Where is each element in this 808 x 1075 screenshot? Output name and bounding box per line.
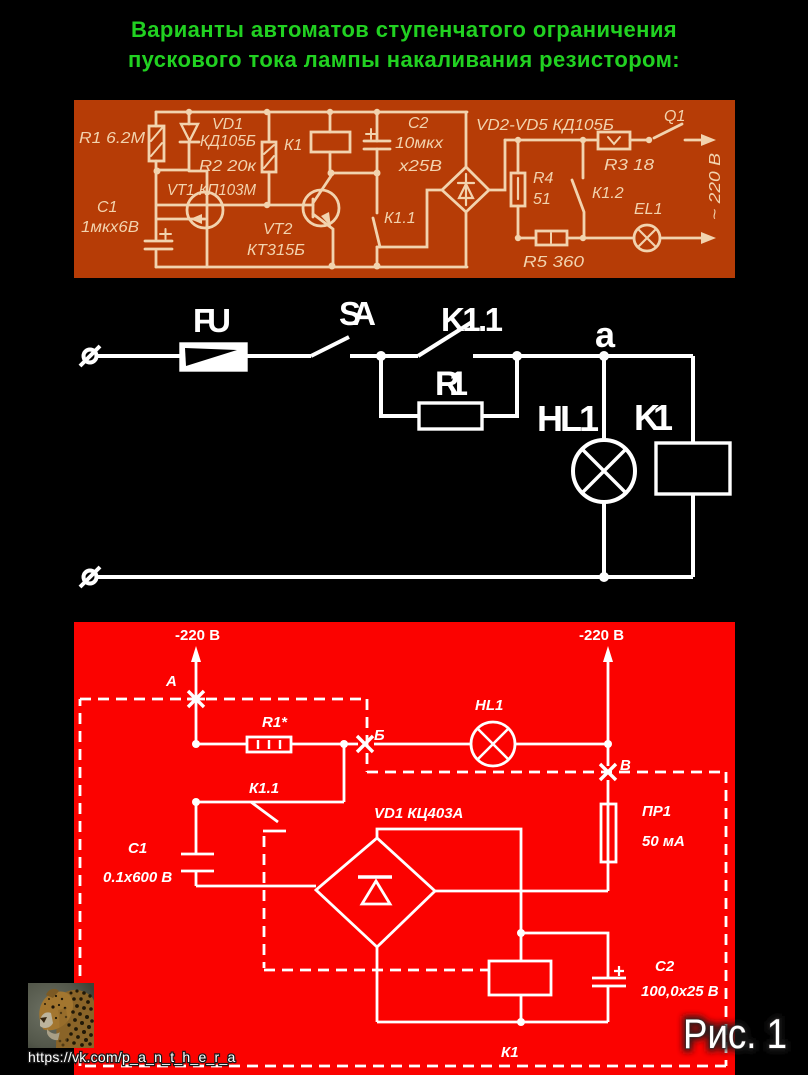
svg-text:a: a: [595, 314, 616, 355]
svg-text:VD2-VD5 КД105Б: VD2-VD5 КД105Б: [476, 117, 614, 134]
svg-text:1мкх6В: 1мкх6В: [81, 219, 139, 236]
svg-text:-220 В: -220 В: [175, 627, 220, 644]
svg-text:х25В: х25В: [398, 158, 443, 175]
svg-text:В: В: [620, 757, 631, 774]
svg-text:пускового тока лампы накаливан: пускового тока лампы накаливания резисто…: [128, 47, 680, 72]
svg-text:EL1: EL1: [634, 201, 662, 218]
svg-text:КТ315Б: КТ315Б: [247, 242, 305, 259]
svg-text:VD1 КЦ403А: VD1 КЦ403А: [374, 805, 463, 822]
svg-text:0.1х600 В: 0.1х600 В: [103, 869, 172, 886]
svg-text:C2: C2: [655, 958, 675, 975]
svg-text:VD1: VD1: [212, 116, 243, 133]
svg-text:K1.1: K1.1: [441, 301, 503, 338]
svg-text:К1.2: К1.2: [592, 185, 624, 202]
svg-text:C2: C2: [408, 115, 429, 132]
svg-text:50 мА: 50 мА: [642, 833, 685, 850]
svg-text:FU: FU: [193, 302, 231, 339]
svg-text:Рис. 1: Рис. 1: [683, 1010, 787, 1057]
svg-text:R3 18: R3 18: [604, 157, 654, 174]
svg-text:R2 20к: R2 20к: [199, 158, 258, 175]
svg-text:Б: Б: [374, 727, 385, 744]
svg-text:VT1 КП103М: VT1 КП103М: [167, 182, 257, 199]
svg-text:ПР1: ПР1: [642, 803, 671, 820]
svg-text:100,0х25 В: 100,0х25 В: [641, 983, 719, 1000]
svg-text:K1: K1: [634, 397, 673, 438]
svg-text:К1: К1: [501, 1044, 519, 1061]
svg-text:https://vk.com/p_a_n_t_h_e_r_a: https://vk.com/p_a_n_t_h_e_r_a: [28, 1049, 236, 1065]
svg-text:HL1: HL1: [537, 398, 599, 439]
svg-text:КД105Б: КД105Б: [200, 133, 256, 150]
svg-text:К1.1: К1.1: [384, 210, 416, 227]
svg-text:Q1: Q1: [664, 108, 685, 125]
svg-text:~ 220 В: ~ 220 В: [707, 153, 724, 220]
svg-text:R1 6.2M: R1 6.2M: [79, 130, 146, 147]
svg-text:A: A: [165, 673, 177, 690]
svg-text:-220 В: -220 В: [579, 627, 624, 644]
svg-text:R1: R1: [435, 365, 468, 403]
svg-text:К1.1: К1.1: [249, 780, 279, 797]
svg-text:VT2: VT2: [263, 221, 292, 238]
svg-text:C1: C1: [128, 840, 147, 857]
svg-text:SA: SA: [339, 295, 376, 332]
svg-text:HL1: HL1: [475, 697, 503, 714]
svg-text:51: 51: [533, 191, 551, 208]
svg-text:R5 360: R5 360: [523, 254, 584, 271]
svg-text:Варианты автоматов ступенчатог: Варианты автоматов ступенчатого ограниче…: [131, 17, 677, 42]
svg-text:C1: C1: [97, 199, 117, 216]
svg-text:R4: R4: [533, 170, 554, 187]
svg-text:R1*: R1*: [262, 714, 288, 731]
svg-text:10мкх: 10мкх: [395, 135, 444, 152]
svg-text:К1: К1: [284, 137, 302, 154]
